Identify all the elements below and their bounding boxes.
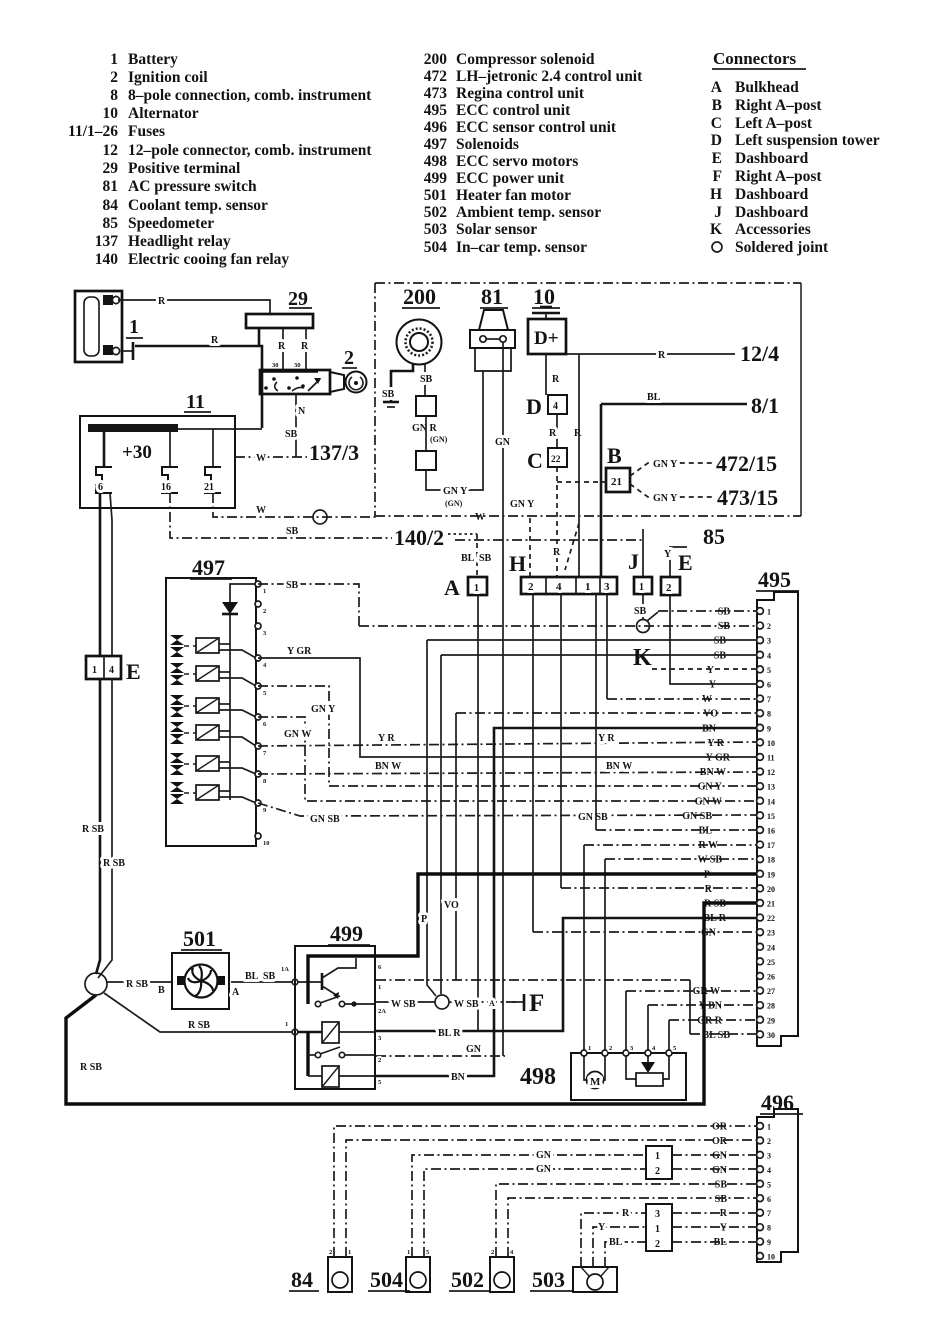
svg-text:BN W: BN W [375, 761, 401, 772]
svg-text:3: 3 [767, 637, 771, 646]
wire BL SB 501 to 499 [231, 966, 292, 998]
wire Y BN from 498 to pin28 [648, 1005, 756, 1053]
wire N/SB from ignition switch [285, 394, 306, 457]
solenoid coil 4 [196, 725, 256, 746]
svg-text:BL R: BL R [438, 1028, 461, 1039]
svg-text:495: 495 [758, 567, 791, 592]
svg-text:Bulkhead: Bulkhead [735, 79, 799, 96]
svg-text:K: K [633, 645, 652, 671]
svg-text:84: 84 [103, 197, 119, 214]
svg-text:200: 200 [424, 51, 448, 68]
fuse 21 [204, 429, 221, 493]
wires 29 to ignition switch [272, 328, 309, 370]
inline connector on solar sensor wires [646, 1204, 756, 1251]
legend column 1 [68, 51, 372, 268]
connector J pin 1 [628, 529, 652, 594]
svg-text:GN Y: GN Y [443, 486, 468, 497]
label GN R (GN) [412, 423, 448, 444]
svg-text:LH–jetronic 2.4 control unit: LH–jetronic 2.4 control unit [456, 68, 643, 85]
svg-text:11: 11 [186, 391, 205, 413]
solenoid coil 5 [196, 756, 256, 774]
498 pins [581, 1045, 677, 1056]
compressor solenoid 200 [397, 284, 442, 365]
wire W SB from 498 to pin18 [605, 859, 756, 1053]
svg-text:13: 13 [767, 783, 775, 792]
soldered joint under J [634, 594, 658, 633]
svg-text:GN W: GN W [284, 729, 311, 740]
svg-text:12–pole connector, comb. instr: 12–pole connector, comb. instrument [128, 142, 372, 159]
svg-text:22: 22 [767, 914, 775, 923]
svg-text:8: 8 [767, 1224, 771, 1233]
AC pressure switch 81 [470, 284, 515, 371]
svg-text:81: 81 [103, 178, 119, 195]
ECC power unit 499 [295, 921, 375, 1089]
wire W from fuse 21 [213, 493, 485, 523]
svg-text:4: 4 [553, 401, 558, 412]
svg-text:25: 25 [767, 958, 775, 967]
solenoid valve 2 [170, 663, 196, 685]
svg-text:23: 23 [767, 929, 775, 938]
wire R from D+ [546, 354, 560, 395]
svg-text:SB: SB [263, 971, 276, 982]
svg-text:H: H [509, 551, 526, 576]
svg-text:OR: OR [712, 1122, 728, 1133]
svg-text:1: 1 [263, 588, 266, 595]
svg-text:2: 2 [263, 608, 266, 615]
svg-text:1: 1 [474, 583, 479, 594]
svg-text:GN R: GN R [412, 423, 438, 434]
svg-text:29: 29 [103, 160, 119, 177]
svg-text:503: 503 [424, 221, 448, 238]
svg-text:R SB: R SB [103, 858, 125, 869]
wire GN from 81 down [495, 342, 511, 1056]
svg-text:BN W: BN W [606, 761, 632, 772]
svg-text:498: 498 [424, 153, 448, 170]
wire R battery to fuse bus [135, 328, 262, 428]
svg-text:Dashboard: Dashboard [735, 204, 809, 221]
svg-text:F: F [713, 168, 722, 185]
svg-text:Accessories: Accessories [735, 221, 811, 238]
svg-text:R: R [278, 341, 286, 352]
svg-text:Y: Y [664, 549, 672, 560]
svg-text:81: 81 [481, 284, 503, 309]
svg-text:SB: SB [479, 553, 492, 564]
svg-text:11/1–26: 11/1–26 [68, 123, 118, 140]
wire R from D to C [549, 414, 582, 448]
wire W SB from 499 with soldered joint to connector F [376, 995, 518, 1010]
svg-text:1: 1 [767, 1123, 771, 1132]
svg-text:AC pressure switch: AC pressure switch [128, 178, 257, 195]
svg-text:2: 2 [344, 347, 354, 369]
svg-text:BL: BL [647, 392, 661, 403]
svg-text:Right A–post: Right A–post [735, 168, 822, 185]
SB wire from fuse16 continues to J [455, 539, 643, 541]
svg-text:R: R [158, 296, 166, 307]
svg-text:R SB: R SB [188, 1020, 210, 1031]
diode box 1 [416, 396, 436, 416]
svg-text:3: 3 [655, 1209, 660, 1220]
svg-text:1: 1 [585, 581, 591, 593]
svg-text:2: 2 [609, 1045, 612, 1052]
svg-text:A: A [711, 79, 723, 96]
connector E pin 2 [661, 550, 693, 595]
svg-text:Coolant temp. sensor: Coolant temp. sensor [128, 197, 268, 214]
svg-text:Soldered joint: Soldered joint [735, 239, 829, 256]
svg-text:10: 10 [263, 840, 270, 847]
ECC sensor control unit connector 496 [757, 1090, 803, 1262]
wire SB (pin2 run) with soldered joint under J [359, 625, 756, 627]
svg-text:Y R: Y R [378, 733, 395, 744]
svg-text:473/15: 473/15 [717, 485, 778, 510]
wire from connector A down to BL R row [477, 595, 479, 1031]
svg-text:R: R [549, 428, 557, 439]
svg-text:Dashboard: Dashboard [735, 186, 809, 203]
svg-text:6: 6 [767, 1195, 771, 1204]
svg-text:W SB: W SB [697, 855, 722, 866]
wire SB to pin3 [427, 640, 756, 996]
svg-text:9: 9 [767, 724, 771, 733]
svg-text:GN SB: GN SB [682, 811, 712, 822]
svg-text:502: 502 [451, 1267, 484, 1292]
svg-text:W: W [256, 505, 266, 516]
svg-text:SB: SB [634, 606, 647, 617]
svg-text:W SB: W SB [454, 999, 479, 1010]
svg-text:R SB: R SB [126, 979, 148, 990]
connector B pin 21 [606, 443, 630, 492]
svg-text:8: 8 [110, 87, 118, 104]
wire SB from 200 to ground [382, 363, 413, 401]
svg-text:W: W [256, 453, 266, 464]
svg-text:15: 15 [767, 812, 775, 821]
svg-text:N: N [298, 406, 306, 417]
svg-text:BL: BL [699, 826, 713, 837]
svg-text:Solenoids: Solenoids [456, 136, 519, 153]
dashed branch to connector B [557, 481, 606, 483]
inline connector on GN wires [646, 1146, 756, 1179]
svg-text:504: 504 [370, 1267, 403, 1292]
svg-text:Y: Y [707, 665, 715, 676]
wire GN from 499/81 to pin23 [376, 1044, 505, 1056]
svg-text:W SB: W SB [391, 999, 416, 1010]
499 right pin labels [285, 964, 386, 1086]
svg-text:Y GR: Y GR [287, 646, 312, 657]
svg-text:Electric cooing fan relay: Electric cooing fan relay [128, 251, 289, 268]
svg-text:2: 2 [378, 1057, 381, 1064]
svg-text:1: 1 [378, 984, 381, 991]
svg-text:85: 85 [103, 215, 119, 232]
svg-text:VO: VO [444, 900, 459, 911]
wire Y R from 497 pin7 to pin10 [258, 733, 756, 746]
solar sensor 503 [530, 1267, 617, 1292]
wire SB from fuse 16 [170, 493, 392, 538]
svg-text:BL: BL [245, 971, 259, 982]
wire SB to pin1 [658, 610, 756, 612]
wire Y from E2 to pin6 [670, 595, 756, 684]
svg-text:M: M [590, 1076, 601, 1088]
495 pin circles and numbers [757, 608, 775, 1040]
connector H strip [509, 551, 617, 594]
svg-text:1: 1 [639, 582, 644, 593]
svg-text:200: 200 [403, 284, 436, 309]
svg-text:J: J [714, 204, 722, 221]
svg-text:2: 2 [110, 69, 118, 86]
svg-text:OR: OR [712, 1136, 728, 1147]
svg-text:3: 3 [604, 581, 610, 593]
ground symbol [383, 402, 399, 407]
svg-text:E: E [126, 659, 141, 684]
ECC servo motors 498 [520, 1053, 686, 1100]
svg-text:R: R [658, 350, 666, 361]
svg-text:BL: BL [461, 553, 475, 564]
svg-text:2: 2 [655, 1166, 660, 1177]
solenoid coil 2 [196, 666, 256, 686]
svg-text:30: 30 [272, 362, 279, 369]
svg-text:10: 10 [103, 105, 119, 122]
svg-text:495: 495 [424, 102, 448, 119]
solenoid block 497 [166, 555, 256, 846]
svg-text:ECC sensor control unit: ECC sensor control unit [456, 119, 617, 136]
svg-text:28: 28 [767, 1002, 775, 1011]
svg-text:5: 5 [767, 1180, 771, 1189]
svg-text:140: 140 [95, 251, 119, 268]
wire W to headlight relay 137/3 [235, 453, 307, 464]
svg-text:Solar sensor: Solar sensor [456, 221, 537, 238]
svg-text:GN SB: GN SB [578, 812, 608, 823]
svg-text:Ambient temp. sensor: Ambient temp. sensor [456, 204, 601, 221]
svg-text:21: 21 [611, 476, 622, 488]
wire SB to pin4 [441, 655, 756, 994]
solenoid valve 1 [170, 635, 196, 657]
svg-text:Compressor solenoid: Compressor solenoid [456, 51, 595, 68]
svg-text:ECC servo motors: ECC servo motors [456, 153, 578, 170]
svg-text:GN: GN [495, 437, 511, 448]
wire BN from 499 to pin9 [376, 728, 756, 1083]
svg-text:1A: 1A [281, 966, 289, 973]
496 pin circles and numbers [757, 1123, 775, 1262]
svg-text:GN: GN [712, 1165, 728, 1176]
svg-text:19: 19 [767, 870, 775, 879]
connector E pins 1,4 on fuse wires [86, 656, 141, 684]
solenoid valve 3 [170, 695, 196, 717]
svg-text:3: 3 [767, 1151, 771, 1160]
svg-text:1: 1 [655, 1224, 660, 1235]
+30 bus bar [88, 424, 262, 463]
svg-text:1: 1 [129, 316, 139, 338]
svg-text:12: 12 [103, 142, 119, 159]
svg-text:R: R [553, 547, 561, 558]
svg-text:Y GR: Y GR [706, 753, 731, 764]
dashed wire BL SB from 140/2 to connector A [461, 534, 492, 577]
svg-text:498: 498 [520, 1064, 556, 1090]
heater fan motor 501 [172, 926, 229, 1009]
wire R battery to positive terminal 29 [118, 296, 270, 314]
wire R SB joint to heater fan 501 [107, 979, 171, 996]
svg-text:D: D [711, 132, 722, 149]
svg-text:ECC control unit: ECC control unit [456, 102, 571, 119]
svg-text:30: 30 [767, 1031, 775, 1040]
svg-text:6: 6 [767, 681, 771, 690]
svg-text:8/1: 8/1 [751, 393, 779, 418]
dashed wire R from C to connector H [553, 467, 561, 577]
svg-text:18: 18 [767, 856, 775, 865]
svg-text:85: 85 [703, 524, 725, 549]
wire BL from connector A to pin16 [596, 594, 756, 830]
svg-text:+30: +30 [122, 442, 152, 463]
svg-text:497: 497 [192, 555, 225, 580]
legend column 3 [710, 79, 880, 256]
499 internals: transistor stage [292, 956, 375, 1004]
svg-text:7: 7 [767, 1209, 771, 1218]
positive terminal 29 [246, 288, 313, 328]
svg-text:F: F [529, 990, 544, 1017]
svg-text:499: 499 [424, 170, 448, 187]
svg-text:SB: SB [286, 526, 299, 537]
legend column 2 [424, 51, 643, 256]
svg-text:E: E [678, 550, 693, 575]
svg-text:SB: SB [420, 374, 433, 385]
dashed wire W to H2 [529, 518, 531, 577]
svg-text:503: 503 [532, 1267, 565, 1292]
svg-text:D+: D+ [534, 328, 559, 349]
svg-text:GN Y: GN Y [311, 704, 336, 715]
solenoid valve 5 [170, 753, 196, 775]
496 pin wire labels [712, 1122, 728, 1249]
svg-text:R SB: R SB [82, 824, 104, 835]
connector C pin 22 [527, 448, 567, 473]
svg-text:12: 12 [767, 768, 775, 777]
wire SB from 497 pin1 down to SB bus [258, 580, 359, 626]
svg-text:W: W [475, 512, 485, 523]
svg-text:2: 2 [767, 1137, 771, 1146]
svg-text:137/3: 137/3 [309, 440, 359, 465]
fuse box 11 [80, 391, 235, 508]
svg-text:GN Y: GN Y [698, 782, 723, 793]
svg-text:B: B [712, 97, 722, 114]
diode box 2 [416, 451, 436, 470]
wire W from H2 to pin7 [607, 594, 756, 699]
wires OR from 84 to 496 pins 1,2 [334, 1126, 756, 1257]
wire Y GR from 497 pin4 to pin11 [258, 646, 756, 757]
svg-text:22: 22 [551, 455, 561, 465]
svg-text:GN: GN [712, 1150, 728, 1161]
svg-text:20: 20 [767, 885, 775, 894]
svg-text:2: 2 [329, 1249, 332, 1256]
wire SB from 200 to diode box [420, 363, 433, 396]
ECC control unit connector 495 [756, 567, 799, 1046]
svg-text:GN Y: GN Y [653, 493, 678, 504]
svg-text:497: 497 [424, 136, 448, 153]
solenoid valve 4 [170, 722, 196, 744]
svg-text:4: 4 [767, 651, 771, 660]
svg-text:D: D [526, 394, 542, 419]
svg-text:Regina control unit: Regina control unit [456, 85, 585, 102]
solenoid coil 1 [196, 638, 256, 658]
wire to box 2 [425, 416, 427, 451]
svg-text:B: B [607, 443, 622, 468]
svg-text:Headlight relay: Headlight relay [128, 233, 231, 250]
svg-text:140/2: 140/2 [394, 525, 444, 550]
svg-text:Y: Y [720, 1223, 728, 1234]
wire BL to 8/1 [601, 392, 747, 577]
svg-text:4: 4 [109, 665, 114, 676]
internal supply bus with diode [222, 584, 256, 800]
svg-text:504: 504 [424, 239, 448, 256]
svg-text:10: 10 [767, 739, 775, 748]
wire GR W from 498 to pin27 [626, 991, 756, 1053]
connector A pin 1 [444, 575, 487, 600]
svg-text:1: 1 [767, 608, 771, 617]
svg-text:Connectors: Connectors [713, 49, 796, 68]
svg-text:502: 502 [424, 204, 448, 221]
svg-text:R: R [622, 1208, 630, 1219]
dashed wires GN Y to 472/15 and 473/15 [630, 459, 712, 476]
svg-text:27: 27 [767, 987, 775, 996]
wires SB from 502 to 496 pins 5,6 [496, 1184, 756, 1257]
svg-text:1: 1 [407, 1249, 410, 1256]
svg-text:10: 10 [533, 284, 555, 309]
wire R to 12/4 [567, 350, 735, 361]
svg-text:473: 473 [424, 85, 448, 102]
svg-text:ECC power unit: ECC power unit [456, 170, 565, 187]
wire GN SB from 497 pin9 to pin15 [258, 803, 756, 825]
wire VO to pin8 [444, 713, 756, 980]
svg-text:SB: SB [286, 580, 299, 591]
svg-text:Dashboard: Dashboard [735, 150, 809, 167]
svg-text:17: 17 [767, 841, 775, 850]
svg-text:SB: SB [382, 389, 395, 400]
alternator 10 [528, 284, 566, 354]
wire GN from H2 to pin23 [533, 594, 756, 932]
svg-text:R SB: R SB [80, 1062, 102, 1073]
svg-text:12/4: 12/4 [740, 341, 779, 366]
svg-text:8: 8 [767, 710, 771, 719]
wire BL R from 499 to pin22 [376, 918, 756, 1039]
svg-text:9: 9 [767, 1238, 771, 1247]
svg-text:501: 501 [183, 926, 216, 951]
svg-text:1: 1 [110, 51, 118, 68]
svg-text:In–car temp. sensor: In–car temp. sensor [456, 239, 587, 256]
svg-text:B: B [158, 985, 165, 996]
wire BN W from 497 pin8 to pin12 [258, 761, 756, 774]
svg-text:7: 7 [767, 695, 771, 704]
svg-text:4: 4 [767, 1166, 771, 1175]
solenoid valve 6 [170, 782, 196, 804]
svg-text:1: 1 [588, 1045, 591, 1052]
svg-text:496: 496 [424, 119, 448, 136]
svg-text:21: 21 [767, 900, 775, 909]
svg-text:SB: SB [285, 429, 298, 440]
499 relay coil 2 [308, 1066, 375, 1087]
wires R Y BL from 503 to inline connector [581, 1208, 646, 1267]
connector K dashed wire Y to pin5 [633, 645, 756, 671]
svg-text:R: R [211, 335, 219, 346]
svg-text:2: 2 [528, 581, 534, 593]
svg-text:Y: Y [598, 1222, 606, 1233]
ignition switch 2 [260, 347, 367, 394]
svg-text:8–pole connection, comb. instr: 8–pole connection, comb. instrument [128, 87, 372, 104]
svg-text:29: 29 [288, 288, 308, 310]
svg-text:Positive terminal: Positive terminal [128, 160, 241, 177]
svg-text:499: 499 [330, 921, 363, 946]
wire R SB loop to pin21 [66, 903, 756, 1104]
dash-dot boundary box (engine compartment) [375, 283, 801, 516]
svg-text:Left A–post: Left A–post [735, 115, 813, 132]
svg-text:GN: GN [536, 1164, 552, 1175]
499 output switch [315, 996, 375, 1007]
svg-text:GN SB: GN SB [310, 814, 340, 825]
wire BL SB to pin30 [376, 980, 756, 1034]
connector F [512, 990, 544, 1017]
